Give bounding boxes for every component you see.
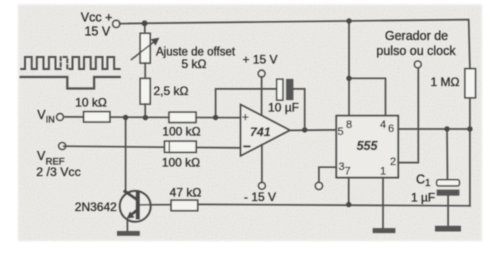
svg-text:C: C <box>416 173 425 187</box>
svg-text:+: + <box>242 110 249 124</box>
junction top rail / 555 supply <box>346 18 351 23</box>
junction VIN / collector <box>123 115 128 120</box>
svg-text:100 kΩ: 100 kΩ <box>162 155 200 169</box>
wire C1 stem <box>446 129 449 180</box>
resistor 100k (upper) <box>162 112 200 138</box>
svg-text:6: 6 <box>388 123 394 135</box>
junction top rail / pot <box>142 20 148 26</box>
svg-text:5: 5 <box>337 126 343 138</box>
svg-text:10 µF: 10 µF <box>268 101 299 115</box>
svg-text:100 kΩ: 100 kΩ <box>162 125 200 139</box>
wire VIN to op-amp + input <box>65 116 240 119</box>
svg-text:555: 555 <box>357 139 379 153</box>
wire right rail below 1M <box>469 98 471 206</box>
junction pin6 / C1 <box>444 126 449 131</box>
wire C1 to ground <box>447 196 449 226</box>
wire transistor base <box>140 204 171 206</box>
terminal VIN <box>37 108 63 125</box>
ground transistor emitter <box>117 231 140 236</box>
wire Vcc top rail <box>120 20 470 69</box>
label generator <box>376 29 456 58</box>
svg-text:- 15 V: - 15 V <box>244 190 276 204</box>
resistor 1M <box>431 69 476 98</box>
svg-text:Gerador de: Gerador de <box>385 29 448 43</box>
junction VIN / 2,5k <box>143 115 148 120</box>
terminal Vcc <box>81 11 120 39</box>
svg-text:7: 7 <box>344 166 350 178</box>
svg-text:10 kΩ: 10 kΩ <box>75 96 107 110</box>
clock waveform <box>21 57 120 69</box>
wire 555 pin 1 to ground <box>382 178 384 229</box>
junction pin8 / pin4 tie <box>346 76 351 81</box>
resistor 2,5k <box>140 78 188 117</box>
wire VREF to op-amp - input <box>64 146 241 148</box>
svg-text:IN: IN <box>46 115 55 125</box>
wire 555 pin 6 <box>398 128 470 130</box>
wire 555 Vcc pin 8 <box>348 21 350 116</box>
capacitor C1 <box>411 173 459 205</box>
junction base wire / pin 7 <box>346 202 351 207</box>
svg-text:Vcc +: Vcc + <box>81 11 113 25</box>
svg-text:2,5 kΩ: 2,5 kΩ <box>154 84 189 98</box>
op-amp 741 <box>241 105 290 156</box>
potentiometer 5k Ajuste de offset <box>132 23 236 78</box>
wire 555 pin 7 <box>348 178 350 205</box>
junction output / 10uF <box>302 127 307 132</box>
resistor 100k (lower) <box>162 141 200 169</box>
wire op-amp output to 555 pin 5 <box>290 129 337 132</box>
svg-text:2: 2 <box>390 156 396 168</box>
resistor 47k <box>170 185 202 210</box>
transistor 2N3642 <box>75 191 151 231</box>
svg-text:+ 15 V: + 15 V <box>242 52 277 66</box>
svg-text:1: 1 <box>425 178 431 189</box>
wire 10uF to output node <box>293 89 304 130</box>
wire base node horizontal <box>198 204 470 205</box>
IC 555 <box>336 116 398 178</box>
svg-text:47 kΩ: 47 kΩ <box>170 185 202 199</box>
svg-text:5 kΩ: 5 kΩ <box>182 57 207 71</box>
terminal -15V <box>244 145 276 205</box>
wire collector <box>125 118 127 193</box>
wire 555 pin 4 tie <box>349 78 386 115</box>
svg-text:8: 8 <box>346 119 352 131</box>
svg-text:1 µF: 1 µF <box>411 191 435 205</box>
capacitor 10uF <box>268 79 299 115</box>
terminal +15V <box>242 52 277 116</box>
svg-text:1 MΩ: 1 MΩ <box>431 75 460 89</box>
terminal VREF <box>36 143 80 180</box>
svg-text:2N3642: 2N3642 <box>75 200 117 214</box>
wire feedback node to 10uF <box>216 89 277 117</box>
svg-text:2 /3 Vcc: 2 /3 Vcc <box>36 165 80 179</box>
junction pin6 / right rail <box>467 126 472 131</box>
output waveform <box>21 77 120 89</box>
junction + input / feedback <box>213 115 218 120</box>
ground 555 pin 1 <box>373 228 396 233</box>
svg-text:4: 4 <box>380 119 386 131</box>
terminal generator input <box>414 61 421 68</box>
svg-text:15 V: 15 V <box>84 25 110 39</box>
terminal output pin 3 <box>315 182 322 189</box>
svg-text:1: 1 <box>380 166 386 178</box>
svg-text:pulso ou clock: pulso ou clock <box>376 44 456 58</box>
wire 555 pin 2 to generator <box>398 68 418 163</box>
resistor 10k <box>75 96 110 122</box>
ground C1 <box>435 226 461 232</box>
svg-text:741: 741 <box>250 125 271 139</box>
wire 555 pin 3 output <box>319 167 336 182</box>
